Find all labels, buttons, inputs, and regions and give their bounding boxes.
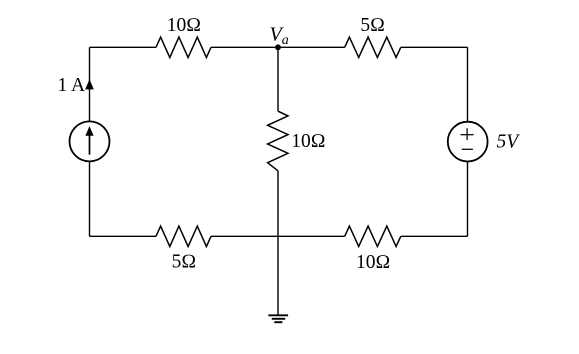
resistor R1 10ohm top-left bbox=[156, 37, 211, 57]
voltage source V1 circle bbox=[448, 122, 488, 162]
svg-text:5Ω: 5Ω bbox=[172, 252, 197, 273]
wire right vertical upper bbox=[467, 47, 469, 121]
node Va dot bbox=[275, 44, 281, 50]
wire middle vertical upper bbox=[277, 47, 279, 111]
svg-text:5V: 5V bbox=[497, 132, 521, 153]
svg-text:10Ω: 10Ω bbox=[356, 252, 390, 273]
ground bbox=[268, 315, 288, 322]
resistor R4 5ohm bottom-left bbox=[156, 226, 211, 246]
wire top-right horizontal bbox=[401, 46, 468, 48]
svg-text:1 A: 1 A bbox=[58, 75, 86, 96]
wire bottom-left horizontal bbox=[90, 235, 157, 237]
current source I1 circle bbox=[70, 121, 110, 161]
wire left vertical lower bbox=[89, 161, 91, 236]
current source arrowhead bbox=[85, 126, 93, 136]
wire left vertical upper bbox=[89, 47, 91, 121]
wire bottom-right horizontal bbox=[401, 235, 468, 237]
current source arrow shaft bbox=[89, 134, 91, 155]
svg-text:5Ω: 5Ω bbox=[360, 15, 385, 36]
svg-text:10Ω: 10Ω bbox=[167, 15, 201, 36]
branch current arrowhead 1A bbox=[85, 79, 94, 89]
resistor R3 10ohm middle vertical bbox=[268, 111, 288, 171]
wire top-left horizontal bbox=[90, 46, 157, 48]
wire right vertical lower bbox=[467, 162, 469, 237]
voltage source minus sign bbox=[462, 148, 473, 150]
wire bottom-middle horizontal bbox=[211, 235, 345, 237]
svg-text:10Ω: 10Ω bbox=[291, 131, 325, 152]
resistor R2 5ohm top-right bbox=[345, 37, 401, 57]
wire top-middle horizontal bbox=[211, 46, 345, 48]
voltage source plus sign bbox=[461, 134, 474, 136]
resistor R5 10ohm bottom-right bbox=[345, 226, 401, 246]
wire middle vertical lower to ground bbox=[277, 171, 279, 315]
